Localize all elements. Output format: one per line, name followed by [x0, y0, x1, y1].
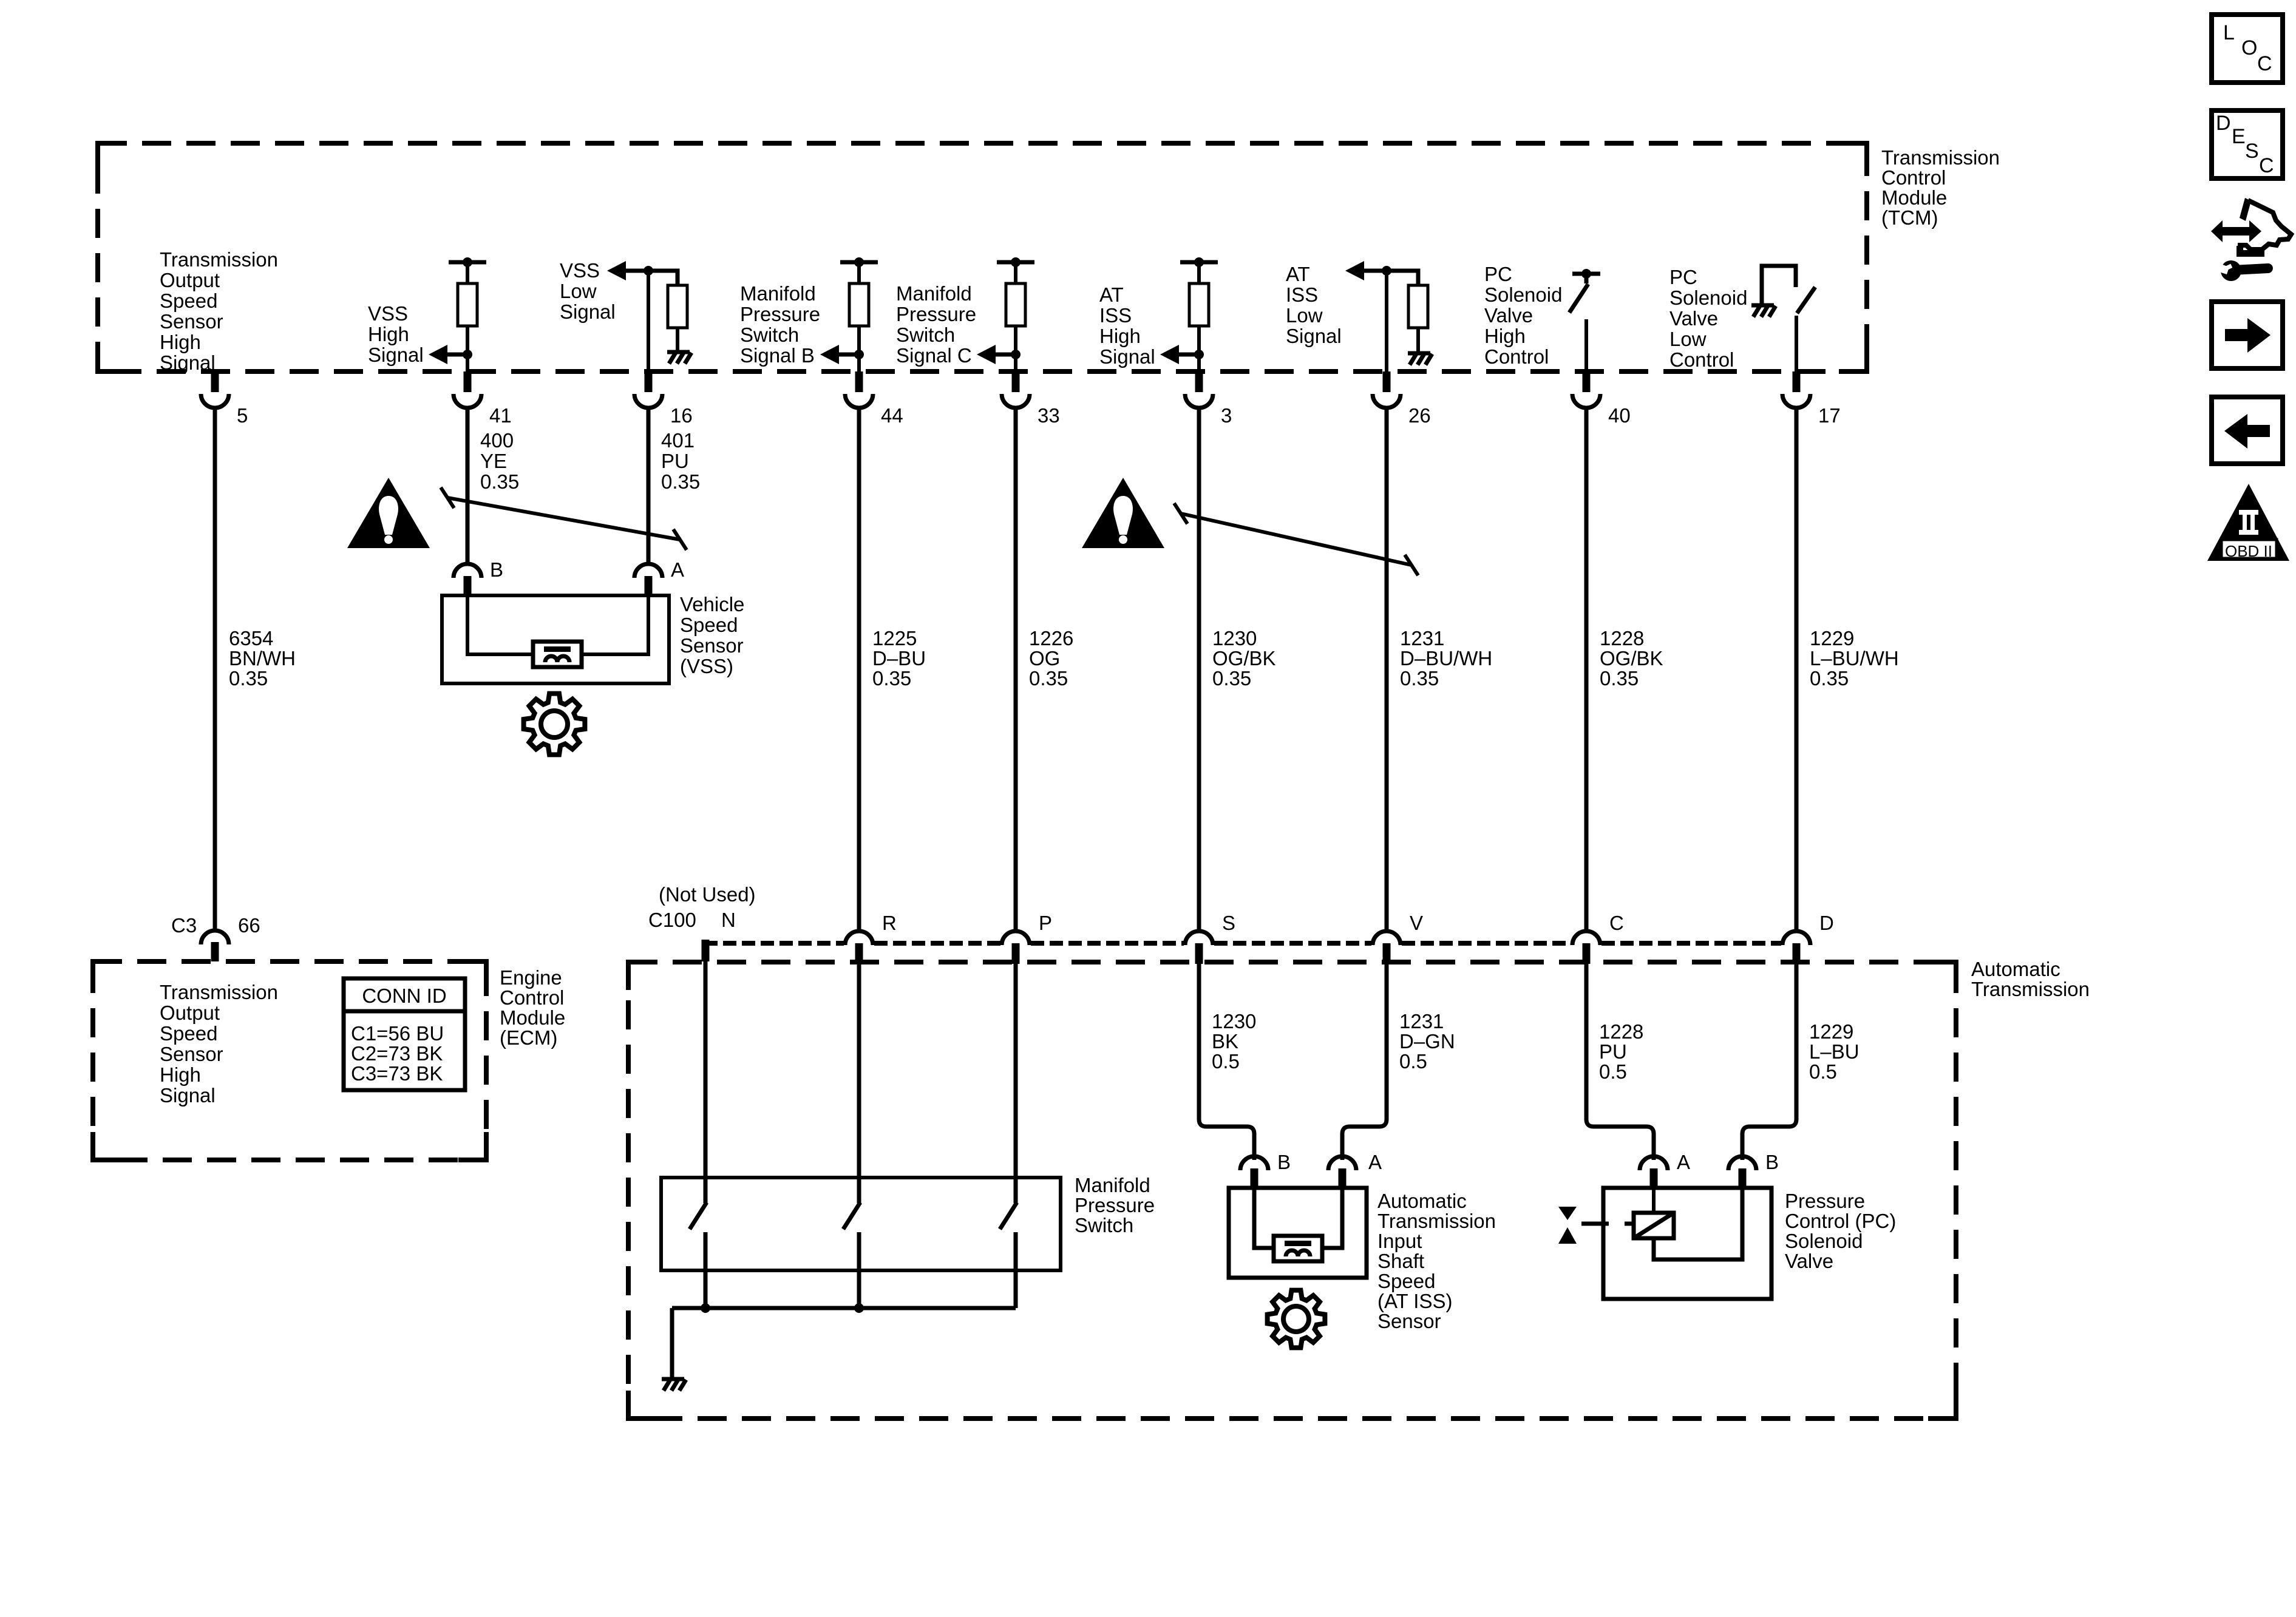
- svg-text:L: L: [2223, 21, 2235, 44]
- resistor R-MPS-B (TCM internal, pin 44): [840, 260, 878, 265]
- svg-text:BN/WH: BN/WH: [229, 647, 296, 670]
- svg-text:400: 400: [480, 429, 514, 452]
- svg-text:C3=73 BK: C3=73 BK: [351, 1062, 443, 1085]
- wire VSS internal A: [582, 595, 648, 654]
- wire pin 26 down: [1385, 271, 1388, 371]
- svg-text:High: High: [160, 1063, 201, 1086]
- svg-text:1228: 1228: [1600, 627, 1644, 649]
- svg-text:0.35: 0.35: [1212, 667, 1251, 690]
- svg-text:PU: PU: [1599, 1040, 1627, 1063]
- svg-text:Transmission: Transmission: [160, 248, 278, 271]
- svg-text:Transmission: Transmission: [1971, 978, 2090, 1000]
- svg-text:Automatic: Automatic: [1971, 958, 2060, 980]
- driver switch PC high (TCM internal, pin 40): [1572, 272, 1600, 276]
- icon box DESC: [2212, 110, 2283, 178]
- svg-text:Switch: Switch: [740, 324, 799, 346]
- svg-text:High: High: [368, 323, 409, 345]
- svg-text:Module: Module: [1881, 186, 1947, 209]
- gear icon AT ISS reluctor: [1268, 1290, 1325, 1348]
- wire AT ISS internal B: [1254, 1188, 1274, 1248]
- svg-text:26: 26: [1408, 404, 1431, 427]
- wire 1228 PU 0.5 (C to PC A): [1586, 963, 1654, 1160]
- svg-text:1230: 1230: [1212, 1010, 1256, 1032]
- connector VSS terminal A: [634, 564, 662, 578]
- svg-text:D–GN: D–GN: [1399, 1030, 1455, 1053]
- connector TCM pin 40: [1583, 371, 1591, 392]
- svg-text:401: 401: [661, 429, 695, 452]
- wire pin 40 down: [1584, 319, 1588, 371]
- svg-text:A: A: [1368, 1151, 1382, 1173]
- svg-text:Engine: Engine: [500, 966, 562, 989]
- svg-text:Low: Low: [1669, 328, 1707, 350]
- svg-text:C2=73 BK: C2=73 BK: [351, 1042, 443, 1065]
- svg-text:B: B: [490, 558, 503, 581]
- connector PC solenoid terminal A: [1640, 1156, 1668, 1170]
- junction dot MPS common at R: [854, 1303, 864, 1313]
- svg-text:Output: Output: [160, 269, 220, 291]
- svg-text:Switch: Switch: [1075, 1214, 1133, 1236]
- svg-text:A: A: [671, 558, 684, 581]
- wire C100 P to switch: [1014, 963, 1018, 1203]
- signal arrow Manifold Pressure Switch Signal C: [977, 345, 996, 364]
- svg-text:Speed: Speed: [160, 1022, 217, 1045]
- wire MPS lower contact x=1162: [704, 1232, 708, 1308]
- wire 1228 OG/BK 0.35 (pin 40 to C100 C): [1584, 408, 1589, 931]
- annotation pointer line W2: [1181, 514, 1411, 565]
- switch blade MPS at x=1673: [1000, 1202, 1017, 1229]
- svg-text:R: R: [882, 912, 897, 934]
- ground TCM internal (pin 16 branch): [667, 350, 690, 354]
- signal arrow Manifold Pressure Switch Signal B: [820, 345, 839, 364]
- svg-text:Low: Low: [560, 280, 597, 302]
- svg-text:Sensor: Sensor: [1377, 1310, 1441, 1332]
- svg-text:VSS: VSS: [368, 302, 408, 325]
- junction dot pin 44: [854, 350, 864, 359]
- svg-text:C3: C3: [171, 914, 197, 937]
- svg-text:D: D: [2216, 112, 2231, 135]
- svg-text:44: 44: [881, 404, 903, 427]
- component box Vehicle Speed Sensor VSS: [442, 595, 669, 683]
- svg-text:High: High: [1484, 325, 1526, 347]
- connector C100 cavity S: [1185, 931, 1213, 945]
- junction dot pin 33: [1011, 350, 1021, 359]
- icon box LOC: [2212, 15, 2283, 83]
- svg-text:AT: AT: [1286, 263, 1310, 285]
- svg-text:Signal: Signal: [1286, 325, 1342, 347]
- wire PC internal coil to B: [1654, 1188, 1742, 1259]
- svg-text:0.35: 0.35: [1400, 667, 1439, 690]
- svg-text:OG/BK: OG/BK: [1212, 647, 1276, 670]
- svg-text:0.5: 0.5: [1212, 1050, 1240, 1073]
- driver switch PC low (TCM internal, pin 17): [1797, 287, 1815, 313]
- svg-text:Sensor: Sensor: [680, 634, 744, 657]
- wire C100 N to switch: [704, 961, 708, 1203]
- svg-text:Signal: Signal: [160, 1084, 216, 1107]
- junction dot pin 16: [644, 266, 653, 276]
- svg-text:0.35: 0.35: [480, 470, 519, 493]
- svg-text:BK: BK: [1212, 1030, 1238, 1053]
- resistor R-MPS-C (TCM internal, pin 33): [997, 260, 1034, 265]
- svg-text:Pressure: Pressure: [740, 303, 820, 325]
- svg-text:Vehicle: Vehicle: [680, 593, 744, 615]
- svg-text:Pressure: Pressure: [1785, 1190, 1865, 1212]
- wire 401 PU 0.35 (pin 16 to VSS A): [647, 408, 651, 564]
- svg-text:Shaft: Shaft: [1377, 1250, 1424, 1272]
- svg-text:ISS: ISS: [1099, 304, 1132, 327]
- connector TCM pin 41: [464, 371, 472, 392]
- valve symbol (bowtie) PC solenoid: [1558, 1207, 1577, 1220]
- component box AT ISS sensor: [1229, 1188, 1367, 1278]
- module box ECM dashed outline: [93, 961, 486, 1160]
- svg-text:C100: C100: [648, 909, 696, 931]
- svg-text:YE: YE: [480, 450, 507, 472]
- svg-text:Sensor: Sensor: [160, 1043, 223, 1065]
- connector PC solenoid terminal B: [1728, 1156, 1756, 1170]
- svg-text:OBD II: OBD II: [2225, 542, 2272, 560]
- component box PC solenoid valve: [1603, 1188, 1771, 1299]
- connector TCM pin 26: [1383, 371, 1391, 392]
- svg-text:Valve: Valve: [1785, 1250, 1833, 1272]
- wire MPS lower contact x=1415: [857, 1232, 861, 1308]
- wire 1225 D-BU 0.35 (pin 44 to C100 R): [857, 408, 861, 931]
- svg-text:Signal: Signal: [368, 344, 424, 366]
- svg-text:Signal: Signal: [160, 351, 216, 374]
- svg-text:0.5: 0.5: [1809, 1060, 1837, 1083]
- wire pin 17 down: [1795, 316, 1798, 371]
- connector C100 cavity N stub (not used): [702, 940, 710, 961]
- connector TCM pin 16: [645, 371, 653, 392]
- svg-text:C1=56 BU: C1=56 BU: [351, 1022, 444, 1045]
- svg-text:Signal B: Signal B: [740, 344, 815, 367]
- junction dot pin 26: [1382, 266, 1391, 276]
- resistor R-VSS-low (TCM internal, pin 16): [668, 285, 687, 328]
- wire PC internal A to coil: [1652, 1188, 1656, 1213]
- signal arrow VSS Low Signal: [607, 261, 626, 280]
- svg-text:Solenoid: Solenoid: [1484, 283, 1562, 306]
- wire 1229 L-BU 0.5 (D to PC B): [1742, 963, 1796, 1160]
- svg-text:Module: Module: [500, 1006, 565, 1029]
- svg-text:Speed: Speed: [1377, 1270, 1435, 1292]
- svg-text:17: 17: [1818, 404, 1841, 427]
- icon box arrow right: [2212, 302, 2283, 368]
- svg-text:L–BU/WH: L–BU/WH: [1810, 647, 1899, 670]
- svg-text:1228: 1228: [1599, 1020, 1643, 1043]
- wire 1231 D-BU/WH 0.35 (pin 26 to C100 V): [1385, 408, 1389, 931]
- svg-text:Switch: Switch: [896, 324, 955, 346]
- svg-text:P: P: [1039, 912, 1052, 934]
- icon box arrow left: [2212, 397, 2283, 464]
- svg-text:Signal: Signal: [560, 300, 616, 323]
- resistor R-VSS-high (TCM internal, pin 41): [449, 260, 486, 265]
- wire 1231 D-GN 0.5 (V to AT ISS A): [1342, 963, 1387, 1160]
- table CONN ID: [344, 978, 465, 1090]
- ground Automatic Transmission case: [662, 1377, 684, 1381]
- svg-text:ISS: ISS: [1286, 283, 1318, 306]
- svg-text:Valve: Valve: [1484, 304, 1533, 327]
- svg-text:Automatic: Automatic: [1377, 1190, 1467, 1212]
- wire pin16 branch to resistor: [648, 271, 678, 285]
- svg-text:Control: Control: [1881, 166, 1946, 189]
- ground TCM internal (pin 17 branch): [1751, 303, 1774, 308]
- svg-text:0.5: 0.5: [1399, 1050, 1427, 1073]
- svg-text:O: O: [2241, 36, 2257, 59]
- switch blade MPS at x=1162: [690, 1202, 707, 1229]
- svg-text:Signal C: Signal C: [896, 344, 972, 367]
- warning triangle W2: [1082, 478, 1164, 548]
- wire valve to coil: [1581, 1222, 1609, 1226]
- connector TCM pin 17: [1793, 371, 1801, 392]
- svg-text:Low: Low: [1286, 304, 1323, 327]
- connector TCM pin 5: [211, 371, 219, 392]
- svg-text:D: D: [1819, 912, 1834, 934]
- wire pin 16 down: [647, 271, 650, 371]
- signal arrow AT ISS Low Signal: [1345, 261, 1364, 280]
- svg-text:A: A: [1677, 1151, 1690, 1173]
- wire 1230 OG/BK 0.35 (pin 3 to C100 S): [1197, 408, 1201, 931]
- bus wire MPS common: [672, 1306, 1016, 1310]
- svg-text:N: N: [721, 909, 736, 931]
- junction dot pin 3: [1194, 350, 1204, 359]
- svg-text:V: V: [1410, 912, 1423, 934]
- svg-text:Transmission: Transmission: [160, 981, 278, 1003]
- svg-text:OG: OG: [1029, 647, 1060, 670]
- junction dot MPS common at N: [701, 1303, 710, 1313]
- svg-text:33: 33: [1038, 404, 1060, 427]
- junction dot pin 41: [463, 350, 472, 359]
- svg-text:D–BU/WH: D–BU/WH: [1400, 647, 1492, 670]
- sensor element VSS pickup coil: [533, 642, 582, 667]
- ground TCM internal (pin 26 branch): [1408, 351, 1430, 356]
- wire MPS lower contact x=1673: [1014, 1232, 1018, 1308]
- svg-text:VSS: VSS: [560, 259, 600, 282]
- connector C100 cavity C: [1572, 931, 1600, 945]
- svg-text:C: C: [1609, 912, 1624, 934]
- svg-text:1231: 1231: [1400, 627, 1444, 649]
- svg-text:Solenoid: Solenoid: [1669, 286, 1747, 309]
- svg-text:(VSS): (VSS): [680, 655, 733, 677]
- svg-text:0.35: 0.35: [1810, 667, 1849, 690]
- svg-text:Transmission: Transmission: [1881, 146, 2000, 169]
- connector C100 cavity V: [1373, 931, 1401, 945]
- wire pin26 branch to resistor: [1387, 271, 1418, 285]
- wire 400 YE 0.35 (pin 41 to VSS B): [466, 408, 470, 564]
- switch blade MPS at x=1415: [843, 1202, 860, 1229]
- wire pin17 ground hook: [1762, 266, 1796, 305]
- warning triangle W1: [347, 478, 430, 548]
- svg-text:6354: 6354: [229, 627, 273, 649]
- svg-text:Valve: Valve: [1669, 307, 1718, 330]
- svg-text:C: C: [2257, 52, 2272, 75]
- svg-text:Output: Output: [160, 1002, 220, 1024]
- connector C100 cavity D: [1782, 931, 1810, 945]
- svg-text:Pressure: Pressure: [1075, 1194, 1155, 1216]
- svg-text:1225: 1225: [872, 627, 917, 649]
- svg-text:High: High: [160, 331, 201, 353]
- svg-text:S: S: [1222, 912, 1235, 934]
- svg-text:PU: PU: [661, 450, 689, 472]
- annotation pointer line W1: [447, 498, 680, 540]
- connector AT ISS terminal A: [1328, 1156, 1356, 1170]
- gear icon VSS reluctor: [524, 694, 585, 755]
- svg-text:Pressure: Pressure: [896, 303, 976, 325]
- svg-text:(ECM): (ECM): [500, 1026, 557, 1049]
- svg-text:D–BU: D–BU: [872, 647, 926, 670]
- connector line C100 dashed: [704, 941, 844, 946]
- svg-text:(AT ISS): (AT ISS): [1377, 1290, 1452, 1312]
- signal arrow VSS High Signal: [429, 345, 447, 364]
- svg-text:40: 40: [1608, 404, 1631, 427]
- connector AT ISS terminal B: [1240, 1156, 1268, 1170]
- connector TCM pin 44: [855, 371, 863, 392]
- icon OBD II triangle: [2207, 484, 2289, 561]
- wire C100 R to switch: [857, 963, 861, 1203]
- icon hand with wrench (adjust): [2211, 198, 2291, 281]
- svg-text:0.35: 0.35: [229, 667, 268, 690]
- svg-text:Input: Input: [1377, 1230, 1422, 1252]
- svg-text:0.35: 0.35: [661, 470, 700, 493]
- wire AT ISS internal A: [1322, 1188, 1342, 1248]
- signal arrow AT ISS High Signal: [1160, 345, 1179, 364]
- svg-text:Control: Control: [500, 986, 564, 1009]
- wire 1230 BK 0.5 (S to AT ISS B): [1199, 963, 1254, 1160]
- svg-text:Manifold: Manifold: [1075, 1174, 1150, 1196]
- svg-text:0.35: 0.35: [872, 667, 911, 690]
- svg-text:S: S: [2245, 140, 2259, 163]
- svg-text:3: 3: [1221, 404, 1232, 427]
- svg-text:66: 66: [238, 914, 260, 937]
- svg-text:Speed: Speed: [680, 614, 738, 636]
- svg-text:C: C: [2259, 154, 2274, 177]
- svg-text:AT: AT: [1099, 283, 1124, 306]
- resistor R-ATISS-high (TCM internal, pin 3): [1180, 260, 1218, 265]
- svg-text:Control: Control: [1669, 348, 1734, 371]
- connector C100 cavity R: [845, 931, 873, 945]
- connector C3 pin 66 (ECM): [201, 931, 229, 944]
- resistor R-ATISS-low (TCM internal, pin 26): [1408, 285, 1428, 328]
- connector C100 cavity P: [1002, 931, 1030, 945]
- svg-text:Control: Control: [1484, 345, 1549, 368]
- svg-text:16: 16: [670, 404, 693, 427]
- svg-text:Manifold: Manifold: [740, 282, 816, 305]
- wire 1229 L-BU/WH 0.35 (pin 17 to C100 D): [1795, 408, 1799, 931]
- component box Automatic Transmission dashed outline: [628, 962, 1956, 1419]
- solenoid coil PC: [1634, 1213, 1674, 1238]
- svg-text:Signal: Signal: [1099, 345, 1155, 368]
- svg-text:(TCM): (TCM): [1881, 206, 1938, 229]
- svg-text:PC: PC: [1484, 263, 1512, 285]
- wire 6354 BN/WH 0.35 (pin 5 to ECM): [213, 408, 217, 931]
- svg-text:Speed: Speed: [160, 290, 217, 312]
- connector VSS terminal B: [453, 564, 481, 578]
- svg-text:CONN ID: CONN ID: [362, 985, 446, 1007]
- svg-text:1229: 1229: [1810, 627, 1854, 649]
- module box TCM (Transmission Control Module) dashed outline: [98, 143, 1867, 371]
- svg-text:B: B: [1277, 1151, 1291, 1173]
- svg-text:41: 41: [489, 404, 512, 427]
- connector TCM pin 33: [1012, 371, 1020, 392]
- svg-text:High: High: [1099, 325, 1141, 347]
- svg-text:1226: 1226: [1029, 627, 1073, 649]
- svg-text:Sensor: Sensor: [160, 310, 223, 333]
- svg-text:B: B: [1765, 1151, 1779, 1173]
- svg-text:1230: 1230: [1212, 627, 1257, 649]
- svg-text:1231: 1231: [1399, 1010, 1444, 1032]
- wire MPS common to ground: [670, 1308, 674, 1379]
- svg-text:0.35: 0.35: [1600, 667, 1639, 690]
- svg-text:Solenoid: Solenoid: [1785, 1230, 1863, 1252]
- sensor element AT ISS pickup coil: [1274, 1236, 1322, 1261]
- svg-text:OG/BK: OG/BK: [1600, 647, 1663, 670]
- svg-text:0.5: 0.5: [1599, 1060, 1627, 1083]
- svg-text:0.35: 0.35: [1029, 667, 1068, 690]
- svg-text:Manifold: Manifold: [896, 282, 972, 305]
- svg-text:E: E: [2232, 125, 2246, 148]
- svg-text:(Not Used): (Not Used): [659, 883, 756, 906]
- connector TCM pin 3: [1195, 371, 1203, 392]
- svg-text:PC: PC: [1669, 266, 1697, 288]
- svg-text:Transmission: Transmission: [1377, 1210, 1496, 1232]
- component box Manifold Pressure Switch: [661, 1178, 1061, 1270]
- wire VSS internal B: [467, 595, 533, 654]
- svg-text:5: 5: [237, 404, 248, 427]
- svg-text:Control (PC): Control (PC): [1785, 1210, 1896, 1232]
- svg-text:1229: 1229: [1809, 1020, 1853, 1043]
- svg-text:L–BU: L–BU: [1809, 1040, 1860, 1063]
- wire 1226 OG 0.35 (pin 33 to C100 P): [1014, 408, 1018, 931]
